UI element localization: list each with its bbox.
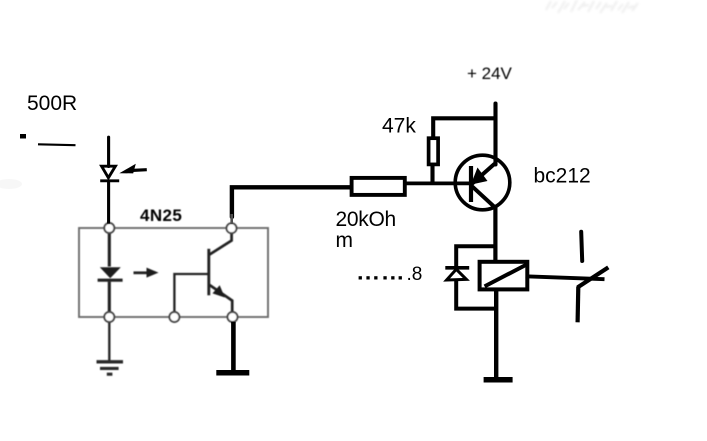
relay contact blade — [578, 267, 609, 287]
svg-text:4N25: 4N25 — [140, 206, 182, 225]
scan smudge bottom-left — [0, 179, 22, 189]
LED input wire (top) — [107, 137, 110, 166]
U1 internal LED cathode wire — [108, 282, 111, 313]
wire relay K1 to ground — [494, 290, 498, 380]
U1 light arrow — [134, 271, 148, 274]
U1 internal LED D2 — [100, 267, 121, 278]
U1 pin 1 (top-left) — [104, 223, 114, 233]
resistor R1 47k — [429, 138, 439, 164]
svg-text:bc212: bc212 — [534, 164, 591, 187]
wire U1 pin4 to ground — [231, 322, 236, 373]
label dots .8 — [359, 276, 402, 279]
dot mark — [20, 134, 26, 139]
svg-text:47k: 47k — [382, 115, 416, 138]
wire +24V rail — [493, 104, 497, 165]
U1 pin 5 (top-right) — [227, 223, 237, 233]
wire R2 to Q1 base — [405, 181, 470, 185]
U1 phototransistor collector — [210, 233, 232, 255]
U1 pin 6 (bottom-middle) — [169, 312, 179, 322]
wire stub (left) — [38, 143, 76, 146]
wire U1 pin5 to R2 — [232, 187, 352, 217]
LED D1 — [102, 166, 116, 178]
transistor Q1 bc212 — [455, 155, 510, 210]
U1 phototransistor base bar — [207, 249, 210, 295]
LED input wire (bottom) — [107, 181, 110, 224]
svg-text:.8: .8 — [407, 264, 423, 285]
wire Q1 collector to relay K1 — [493, 207, 497, 263]
arrow into LED D1 — [119, 164, 136, 174]
wire D3 bottom to relay bottom node — [456, 281, 497, 309]
svg-text:500R: 500R — [27, 92, 77, 115]
U1 pin 4 (bottom-right) — [228, 312, 238, 322]
flyback diode D3 — [445, 266, 469, 270]
earth ground under U1 pin (left) — [97, 322, 124, 375]
optocoupler U1 body (4N25 box) — [79, 228, 268, 317]
wire R1 top to +24V rail — [433, 118, 495, 137]
relay contact common wire — [575, 286, 580, 322]
svg-text:20kOh: 20kOh — [336, 208, 396, 231]
relay coil K1 — [480, 262, 528, 290]
ground under relay K1 — [484, 377, 513, 383]
U1 internal LED anode wire — [108, 233, 111, 267]
wire relay K1 to contact — [526, 276, 605, 279]
ground under U1 pin4 — [216, 370, 249, 376]
U1 phototransistor emitter — [210, 285, 233, 312]
wire branch to flyback diode D3 — [456, 246, 495, 266]
U1 pin 2 (bottom-left) — [104, 312, 114, 322]
U1 base wire to pin — [174, 274, 209, 312]
svg-text:m: m — [336, 229, 354, 252]
resistor R2 20kOhm — [352, 178, 405, 195]
svg-text:+ 24V: + 24V — [467, 64, 513, 83]
wire R1 bottom to base node — [430, 165, 434, 183]
scan smudge top-right — [546, 0, 638, 13]
relay contact terminal (top stub) — [581, 232, 582, 261]
